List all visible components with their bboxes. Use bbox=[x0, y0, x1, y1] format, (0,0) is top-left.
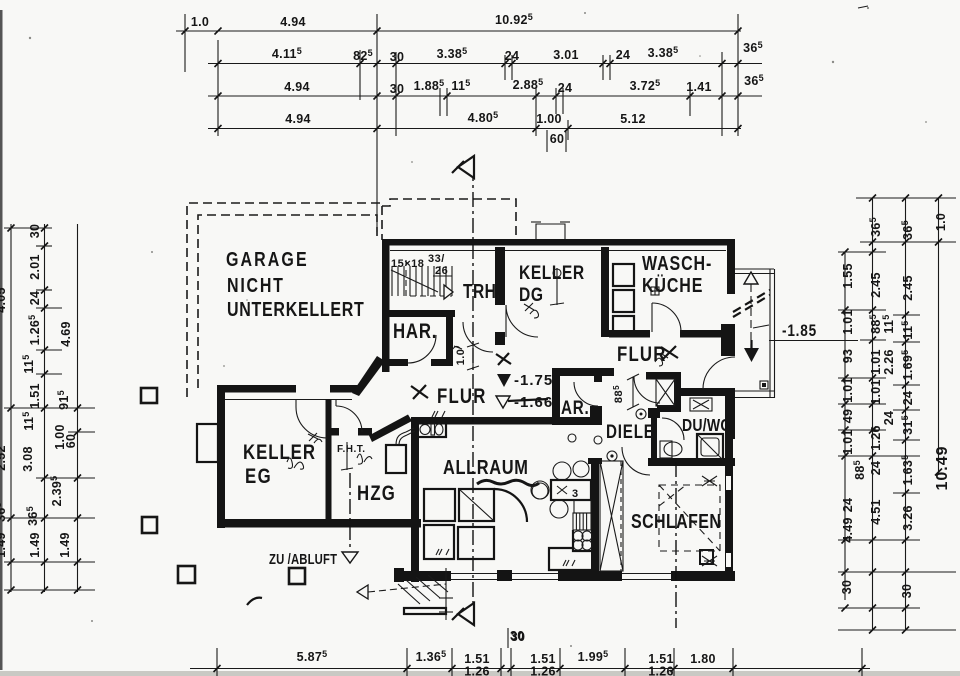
kitchen counter right wall bbox=[551, 480, 591, 500]
bottom dimension block bbox=[190, 630, 870, 676]
AR south wall bbox=[552, 417, 602, 425]
svg-text:24: 24 bbox=[616, 48, 631, 62]
north exterior wall bbox=[382, 239, 735, 246]
staircase treads TRH bbox=[391, 266, 393, 296]
diele hinge circles bbox=[636, 409, 646, 419]
plumb line KELLER EG bbox=[346, 442, 348, 470]
svg-text:3.26: 3.26 bbox=[901, 505, 915, 531]
svg-text:1.0: 1.0 bbox=[934, 213, 948, 231]
porch north edge bbox=[735, 268, 774, 270]
door WASCHKUECHE arc bbox=[652, 303, 681, 332]
handwriting fp KELLER EG bbox=[287, 458, 304, 469]
svg-text:60: 60 bbox=[550, 132, 565, 146]
exterior stair dashed arrow bbox=[368, 584, 446, 592]
svg-text:93: 93 bbox=[841, 349, 855, 364]
exterior stair bars bbox=[404, 608, 446, 614]
door SCHLAFEN arc bbox=[622, 447, 650, 475]
left dimension block bbox=[0, 224, 95, 594]
top chain line 3 bbox=[208, 95, 762, 97]
svg-text:1.49: 1.49 bbox=[0, 532, 8, 558]
svg-text:60: 60 bbox=[64, 434, 78, 449]
left dim slashes bbox=[8, 225, 15, 232]
AR west wall bbox=[552, 368, 560, 425]
svg-text:2.45: 2.45 bbox=[901, 275, 915, 301]
svg-text:26: 26 bbox=[435, 265, 448, 277]
svg-text:1.26: 1.26 bbox=[869, 425, 883, 451]
svg-text:3: 3 bbox=[572, 488, 579, 500]
svg-text:EG: EG bbox=[245, 465, 272, 488]
south wall pillar bbox=[497, 570, 512, 581]
right dimension block bbox=[838, 195, 956, 634]
right dim slashes bbox=[842, 249, 849, 256]
drain symbol bbox=[651, 287, 659, 295]
KELLER EG west wall bbox=[217, 385, 225, 528]
porch up arrow (hollow) bbox=[744, 272, 758, 284]
svg-text:4.05: 4.05 bbox=[0, 287, 8, 313]
ALLRAUM west wall bbox=[411, 417, 419, 582]
svg-text:ALLRAUM: ALLRAUM bbox=[443, 455, 528, 478]
TRH south door jamb bbox=[495, 332, 505, 345]
svg-text:3.01: 3.01 bbox=[553, 48, 579, 62]
svg-text:WASCH-: WASCH- bbox=[642, 252, 712, 274]
exterior stair hatch bbox=[398, 575, 448, 604]
svg-text:TRH.: TRH. bbox=[463, 280, 501, 303]
shaft east wall bbox=[674, 372, 681, 411]
armchair arc bbox=[494, 489, 527, 522]
plumb bob symbol KELLER DG bbox=[556, 268, 558, 305]
section line B bbox=[675, 462, 677, 628]
door HAR arc bbox=[408, 335, 436, 363]
porch south edge bbox=[735, 390, 774, 392]
south wall segment 3 bbox=[671, 571, 735, 581]
sofa squares bbox=[424, 489, 455, 521]
svg-text:DU/WC: DU/WC bbox=[682, 415, 731, 435]
svg-text:1.26: 1.26 bbox=[464, 665, 490, 676]
svg-text:24: 24 bbox=[841, 498, 855, 513]
planter square south 2 (zu/abluft) bbox=[289, 568, 305, 584]
entry south wall / DU-WC north wall bbox=[680, 388, 735, 396]
garage dashed outer outline bbox=[187, 203, 382, 397]
kitchen low cabinet bbox=[549, 530, 591, 570]
svg-text:1.51: 1.51 bbox=[28, 383, 42, 409]
right chain vertical lines bbox=[844, 252, 846, 600]
small mat square bbox=[760, 381, 768, 389]
door AR arc bbox=[574, 382, 598, 406]
x mark near TRH bbox=[496, 353, 511, 365]
svg-text:-1.75: -1.75 bbox=[514, 372, 553, 389]
door DU/WC arc bbox=[662, 418, 684, 440]
svg-text:-1.85: -1.85 bbox=[782, 322, 817, 341]
svg-text:5.12: 5.12 bbox=[620, 112, 646, 126]
level mark -1.66 struck bbox=[496, 396, 510, 408]
svg-text:24: 24 bbox=[28, 291, 42, 306]
section triangle top bbox=[458, 156, 474, 178]
shaft south wall bbox=[657, 405, 681, 412]
porch east edge bbox=[769, 269, 771, 398]
svg-text:1.01: 1.01 bbox=[841, 309, 855, 335]
bedside square bbox=[700, 550, 713, 564]
HAR south wall bbox=[382, 359, 408, 366]
svg-text:FLUR: FLUR bbox=[437, 385, 487, 408]
boiler pipes squiggle bbox=[396, 432, 407, 445]
x mark flur right bbox=[661, 346, 678, 359]
section triangle bottom bbox=[458, 603, 474, 625]
svg-text:10.49: 10.49 bbox=[934, 445, 951, 490]
TRH - KELLER DG divider wall bbox=[495, 247, 505, 305]
svg-text:UNTERKELLERT: UNTERKELLERT bbox=[227, 298, 365, 320]
svg-text:HAR.: HAR. bbox=[393, 320, 437, 343]
x mark flur left bbox=[411, 385, 428, 399]
svg-text:4.51: 4.51 bbox=[869, 499, 883, 525]
door TRH to FLUR arc bbox=[463, 322, 493, 352]
svg-text:2.45: 2.45 bbox=[869, 272, 883, 298]
door house entry arc bbox=[703, 357, 735, 389]
south wall window 2 bbox=[512, 573, 558, 575]
level mark -1.75 bbox=[497, 374, 511, 387]
svg-text:1.01: 1.01 bbox=[869, 349, 883, 375]
ALLRAUM north wall bbox=[411, 417, 552, 425]
planter square south 1 bbox=[178, 566, 195, 583]
svg-text:4.94: 4.94 bbox=[285, 112, 311, 126]
svg-text:3.08: 3.08 bbox=[21, 446, 35, 472]
handwriting delta keller dg door bbox=[524, 303, 539, 318]
svg-text:30: 30 bbox=[28, 224, 42, 239]
svg-text:30: 30 bbox=[390, 50, 405, 64]
chimney block on west wall bbox=[197, 424, 218, 462]
shower bbox=[697, 434, 723, 460]
svg-text:15×18: 15×18 bbox=[391, 258, 424, 270]
top right stray mark bbox=[858, 6, 868, 8]
svg-text:1.49: 1.49 bbox=[58, 532, 72, 558]
top chain line 1 bbox=[176, 30, 741, 32]
east wall entry block bbox=[725, 389, 735, 439]
svg-text:NICHT: NICHT bbox=[227, 274, 285, 296]
svg-text:4.94: 4.94 bbox=[284, 80, 310, 94]
zu/abluft dash line bbox=[349, 473, 351, 551]
svg-text:30: 30 bbox=[900, 584, 914, 599]
stove four burners bbox=[573, 531, 583, 541]
garage dashed inner outline bbox=[198, 215, 377, 388]
KELLER DG - WASCHKUECHE divider wall bbox=[601, 247, 609, 337]
south wall window 3 bbox=[622, 573, 671, 575]
boiler HZG bbox=[386, 445, 406, 473]
south wall segment 1 (below stairs) bbox=[402, 571, 451, 581]
diagonal wall jog HZG to ALLRAUM bbox=[369, 415, 412, 443]
walls bbox=[197, 222, 735, 582]
svg-text:2.26: 2.26 bbox=[882, 349, 896, 375]
porch down arrow (filled) bbox=[744, 348, 759, 362]
photocopy specks bbox=[29, 37, 31, 39]
left dim tick lines bbox=[4, 227, 52, 229]
svg-text:-1.66: -1.66 bbox=[514, 394, 553, 411]
DU-WC jamb left bbox=[648, 408, 660, 418]
svg-text:F.H.T.: F.H.T. bbox=[337, 444, 366, 455]
east wall block at porch door bbox=[721, 324, 735, 356]
top dim ticks bbox=[182, 28, 189, 35]
window symbol marks on line B bbox=[702, 476, 717, 486]
south wall window 1 bbox=[451, 573, 497, 575]
ALLRAUM - SCHLAFEN divider wall bbox=[591, 458, 599, 574]
bed dashed bbox=[659, 485, 720, 551]
DU-WC south wall bbox=[648, 458, 735, 466]
page bottom edge shadow bbox=[0, 671, 960, 676]
roof overhang dashed outline above TRH bbox=[382, 199, 516, 240]
svg-text:ZU /ABLUFT: ZU /ABLUFT bbox=[269, 551, 337, 568]
svg-text:24: 24 bbox=[882, 411, 896, 426]
svg-text:1.0: 1.0 bbox=[455, 349, 467, 366]
door DIELE main arc bbox=[634, 377, 660, 403]
porch centre dash line bbox=[750, 272, 752, 360]
right dim tick lines bbox=[856, 197, 956, 199]
svg-text:30: 30 bbox=[840, 580, 854, 595]
AR east wall bbox=[594, 376, 602, 382]
AR north wall bbox=[552, 368, 614, 376]
planter square west 2 bbox=[142, 517, 157, 533]
svg-text:1.00: 1.00 bbox=[536, 112, 562, 126]
svg-text:HZG: HZG bbox=[357, 482, 396, 505]
handwriting delta keller eg door bbox=[308, 433, 322, 443]
svg-text:1.49: 1.49 bbox=[28, 532, 42, 558]
handwriting fp HZG bbox=[357, 454, 372, 464]
allraum scrawl bbox=[477, 480, 539, 485]
handwriting delta TRH door bbox=[452, 346, 462, 350]
svg-text:1.55: 1.55 bbox=[841, 263, 855, 289]
KELLER EG north wall inner line bbox=[218, 399, 352, 401]
south wall segment 2 bbox=[558, 571, 622, 581]
washing machines WASCHKUECHE bbox=[613, 264, 634, 286]
shaft top wall bbox=[646, 372, 680, 380]
window niche north wall KELLER DG bbox=[536, 224, 565, 239]
porch tick bbox=[753, 325, 769, 328]
handwriting near waschkueche door bbox=[655, 354, 668, 366]
svg-text:1.80: 1.80 bbox=[690, 652, 716, 666]
HAR east wall bbox=[446, 317, 453, 366]
svg-text:24: 24 bbox=[901, 391, 915, 406]
porch ramp dashes bbox=[733, 290, 770, 312]
diagonal wall jog garage to HAR bbox=[352, 356, 385, 396]
svg-text:24: 24 bbox=[558, 81, 573, 95]
divider top jamb bbox=[588, 458, 602, 464]
closet tall box with X bbox=[600, 461, 623, 571]
KELLER EG / building south wall bbox=[217, 519, 421, 528]
svg-text:24: 24 bbox=[505, 49, 520, 63]
svg-text:FLUR: FLUR bbox=[617, 343, 667, 366]
washbasin DU/WC bbox=[690, 398, 712, 411]
marks at cabinet bbox=[563, 560, 575, 566]
svg-text:1.41: 1.41 bbox=[686, 80, 712, 94]
svg-text:4.69: 4.69 bbox=[59, 321, 73, 347]
svg-text:2.52: 2.52 bbox=[0, 445, 8, 471]
svg-text:1.01: 1.01 bbox=[869, 379, 883, 405]
top dimension block bbox=[176, 12, 764, 232]
kitchen window arrows bbox=[432, 411, 445, 417]
door KELLER DG arc bbox=[506, 305, 538, 337]
svg-text:30: 30 bbox=[510, 629, 525, 643]
bottom chain line bbox=[190, 668, 870, 670]
planter square west 1 bbox=[141, 388, 157, 403]
svg-text:GARAGE: GARAGE bbox=[226, 248, 309, 270]
zu/abluft hollow triangle bbox=[342, 552, 358, 563]
door F.H.T arc bbox=[336, 406, 362, 432]
east wall Schlafen bbox=[725, 439, 733, 581]
svg-text:49: 49 bbox=[841, 409, 855, 424]
svg-text:KELLER: KELLER bbox=[243, 441, 316, 464]
svg-text:1.01: 1.01 bbox=[841, 429, 855, 455]
staircase handrail bbox=[391, 270, 438, 292]
svg-text:1.01: 1.01 bbox=[841, 377, 855, 403]
door KELLER EG arc bbox=[296, 407, 327, 438]
svg-text:DG: DG bbox=[519, 283, 544, 305]
bottom dim extension lines bbox=[216, 648, 218, 676]
page left edge shadow bbox=[0, 10, 3, 670]
dishwasher lines bbox=[573, 513, 591, 530]
svg-text:AR.: AR. bbox=[561, 396, 590, 418]
svg-text:1.0: 1.0 bbox=[191, 15, 209, 29]
svg-text:KELLER: KELLER bbox=[519, 261, 585, 283]
bottom dim slashes bbox=[214, 665, 221, 672]
east wall window marks bbox=[726, 476, 731, 490]
stair walk-line arrow bbox=[444, 285, 453, 299]
stray pen mark bottom left bbox=[247, 598, 262, 605]
left chain vertical lines bbox=[10, 224, 12, 592]
shaft box with X bbox=[656, 379, 675, 406]
top chain line 2 bbox=[208, 63, 762, 65]
svg-text:33/: 33/ bbox=[428, 253, 445, 265]
KELLER EG north wall (garage south) bbox=[217, 385, 296, 393]
svg-text:24: 24 bbox=[869, 461, 883, 476]
kitchen sink unit top bbox=[417, 422, 446, 437]
svg-text:1.26: 1.26 bbox=[530, 665, 556, 676]
DU-WC west wall bbox=[651, 412, 657, 460]
circle symbol at closet top bbox=[607, 451, 617, 461]
HZG north wall stub + jambs bbox=[327, 428, 339, 436]
TRH stair-foot wall bbox=[382, 310, 455, 317]
svg-text:1.26: 1.26 bbox=[648, 665, 674, 676]
TRH west wall bbox=[382, 239, 390, 372]
KELLER EG - HZG divider wall bbox=[326, 399, 332, 524]
svg-text:30: 30 bbox=[390, 82, 405, 96]
section line A bbox=[472, 166, 474, 618]
east exterior wall upper (Waschkueche) bbox=[727, 239, 735, 294]
toilet bbox=[660, 441, 672, 458]
svg-text:4.49: 4.49 bbox=[841, 517, 855, 543]
WASCHKUECHE south wall bbox=[609, 330, 650, 338]
top chain line 4 bbox=[208, 128, 741, 130]
svg-text:10.925: 10.925 bbox=[495, 12, 533, 27]
staircase dashed walk outline bbox=[406, 260, 452, 296]
svg-text:2.01: 2.01 bbox=[28, 254, 42, 280]
svg-text:DIELE: DIELE bbox=[606, 420, 655, 442]
svg-text:4.94: 4.94 bbox=[280, 15, 306, 29]
top dim extension lines bbox=[184, 14, 186, 72]
